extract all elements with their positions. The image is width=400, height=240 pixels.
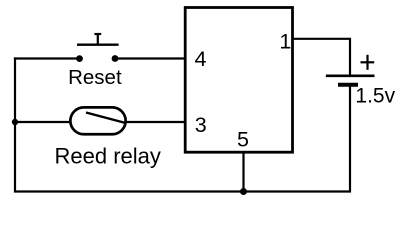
junction node bottom — [240, 188, 247, 195]
reed relay K1 — [70, 107, 125, 134]
IC U1 — [185, 8, 292, 153]
wire reed right to pin 3 — [126, 121, 186, 123]
svg-text:5: 5 — [237, 128, 249, 152]
wire pin 5 down — [242, 152, 244, 191]
junction node left — [12, 119, 18, 125]
wire reset left — [14, 57, 80, 59]
svg-text:1: 1 — [279, 30, 291, 54]
wire pin 1 to battery — [293, 39, 351, 75]
svg-text:3: 3 — [195, 113, 207, 137]
battery B1 long plate — [326, 75, 375, 78]
svg-text:1.5v: 1.5v — [355, 84, 395, 107]
svg-text:4: 4 — [195, 47, 207, 71]
plus sign — [361, 55, 375, 70]
wire reed left — [14, 121, 71, 123]
battery B1 short plate — [338, 83, 358, 87]
wire reset right to pin 4 — [114, 57, 186, 59]
svg-text:Reed relay: Reed relay — [55, 144, 161, 169]
pushbutton Reset — [76, 34, 119, 62]
svg-text:Reset: Reset — [68, 66, 122, 89]
wire left vertical + bottom + battery return — [15, 57, 350, 191]
